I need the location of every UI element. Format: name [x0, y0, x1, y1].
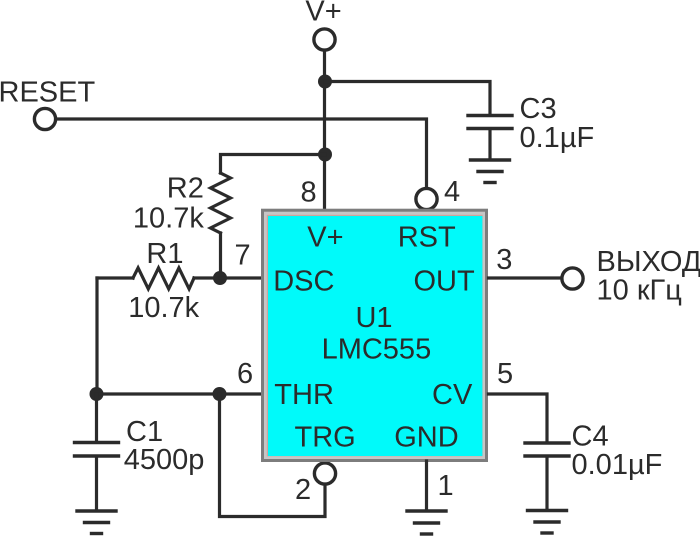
wire THR line	[97, 392, 263, 395]
capacitor C4	[525, 443, 569, 456]
junction V+ rail / C3	[318, 75, 332, 89]
junction pin 7 node	[213, 271, 227, 285]
svg-text:10 кГц: 10 кГц	[597, 275, 682, 307]
svg-text:GND: GND	[394, 422, 458, 454]
terminal RESET circle	[34, 108, 55, 129]
svg-text:THR: THR	[274, 379, 334, 411]
svg-text:10.7k: 10.7k	[133, 203, 204, 235]
ground under C3	[471, 160, 510, 183]
wire GND pin 1	[425, 461, 428, 510]
svg-text:RESET: RESET	[0, 77, 95, 109]
junction R2 top	[318, 148, 332, 162]
wire OUT pin 3	[489, 276, 562, 279]
wire C4 to ground	[545, 458, 548, 510]
wire C1 top	[95, 394, 98, 441]
svg-text:V+: V+	[305, 0, 341, 28]
svg-text:3: 3	[496, 244, 512, 276]
capacitor C1	[75, 443, 119, 457]
svg-text:CV: CV	[432, 379, 473, 411]
svg-text:8: 8	[301, 177, 317, 209]
resistor R1	[133, 268, 194, 289]
svg-text:TRG: TRG	[295, 422, 356, 454]
svg-text:RST: RST	[398, 221, 456, 253]
svg-text:R1: R1	[146, 238, 183, 270]
svg-text:5: 5	[497, 358, 513, 390]
ground under pin 1	[407, 511, 446, 534]
IC U1 body cyan fill	[268, 216, 482, 456]
wire C1 to ground	[95, 458, 98, 510]
svg-text:V+: V+	[307, 221, 343, 253]
IC U1 body inner pink line	[267, 215, 483, 456]
wire junction to DSC pin 7	[220, 276, 262, 279]
svg-text:4500p: 4500p	[124, 444, 205, 476]
svg-text:0.01µF: 0.01µF	[572, 449, 663, 481]
svg-text:0.1µF: 0.1µF	[520, 122, 595, 154]
wire C3 to ground	[488, 130, 491, 159]
capacitor C3	[468, 116, 512, 129]
ground under C1	[77, 511, 116, 534]
svg-text:R2: R2	[167, 173, 204, 205]
svg-text:ВЫХОД: ВЫХОД	[597, 246, 700, 278]
wire V+ rail to C3	[325, 82, 490, 115]
terminal OUT circle	[562, 268, 583, 289]
svg-text:6: 6	[237, 358, 253, 390]
wire junction to R2	[221, 155, 326, 174]
wire left rail down	[95, 278, 98, 394]
wire RESET to pin 4	[56, 119, 427, 188]
pin 2 terminal circle	[314, 463, 335, 484]
svg-text:7: 7	[235, 240, 251, 272]
wire R2 bottom to pin 7 node	[219, 233, 222, 278]
wire left to R1	[97, 276, 133, 279]
resistor R2	[211, 173, 231, 233]
svg-text:C4: C4	[572, 420, 609, 452]
svg-text:U1: U1	[355, 302, 392, 334]
svg-text:2: 2	[295, 474, 311, 506]
svg-text:4: 4	[444, 176, 460, 208]
svg-text:10.7k: 10.7k	[128, 292, 199, 324]
svg-text:LMC555: LMC555	[322, 334, 432, 366]
IC U1 body outer bevel	[261, 209, 488, 462]
wire TRG branch to pin 2	[220, 394, 326, 517]
ground under C4	[528, 511, 567, 534]
IC U1 body light border	[264, 212, 485, 459]
svg-text:OUT: OUT	[414, 266, 476, 298]
wire CV pin 5 to C4	[489, 394, 548, 441]
junction C1 top	[90, 387, 104, 401]
wire V+ vertical to pin 8	[323, 51, 326, 209]
svg-text:1: 1	[438, 470, 454, 502]
pin 4 terminal circle	[416, 188, 437, 209]
junction TRG branch	[213, 387, 227, 401]
svg-text:C3: C3	[520, 93, 557, 125]
wire R1 to junction	[194, 276, 220, 279]
svg-text:DSC: DSC	[273, 266, 334, 298]
terminal V+ circle	[314, 29, 335, 50]
